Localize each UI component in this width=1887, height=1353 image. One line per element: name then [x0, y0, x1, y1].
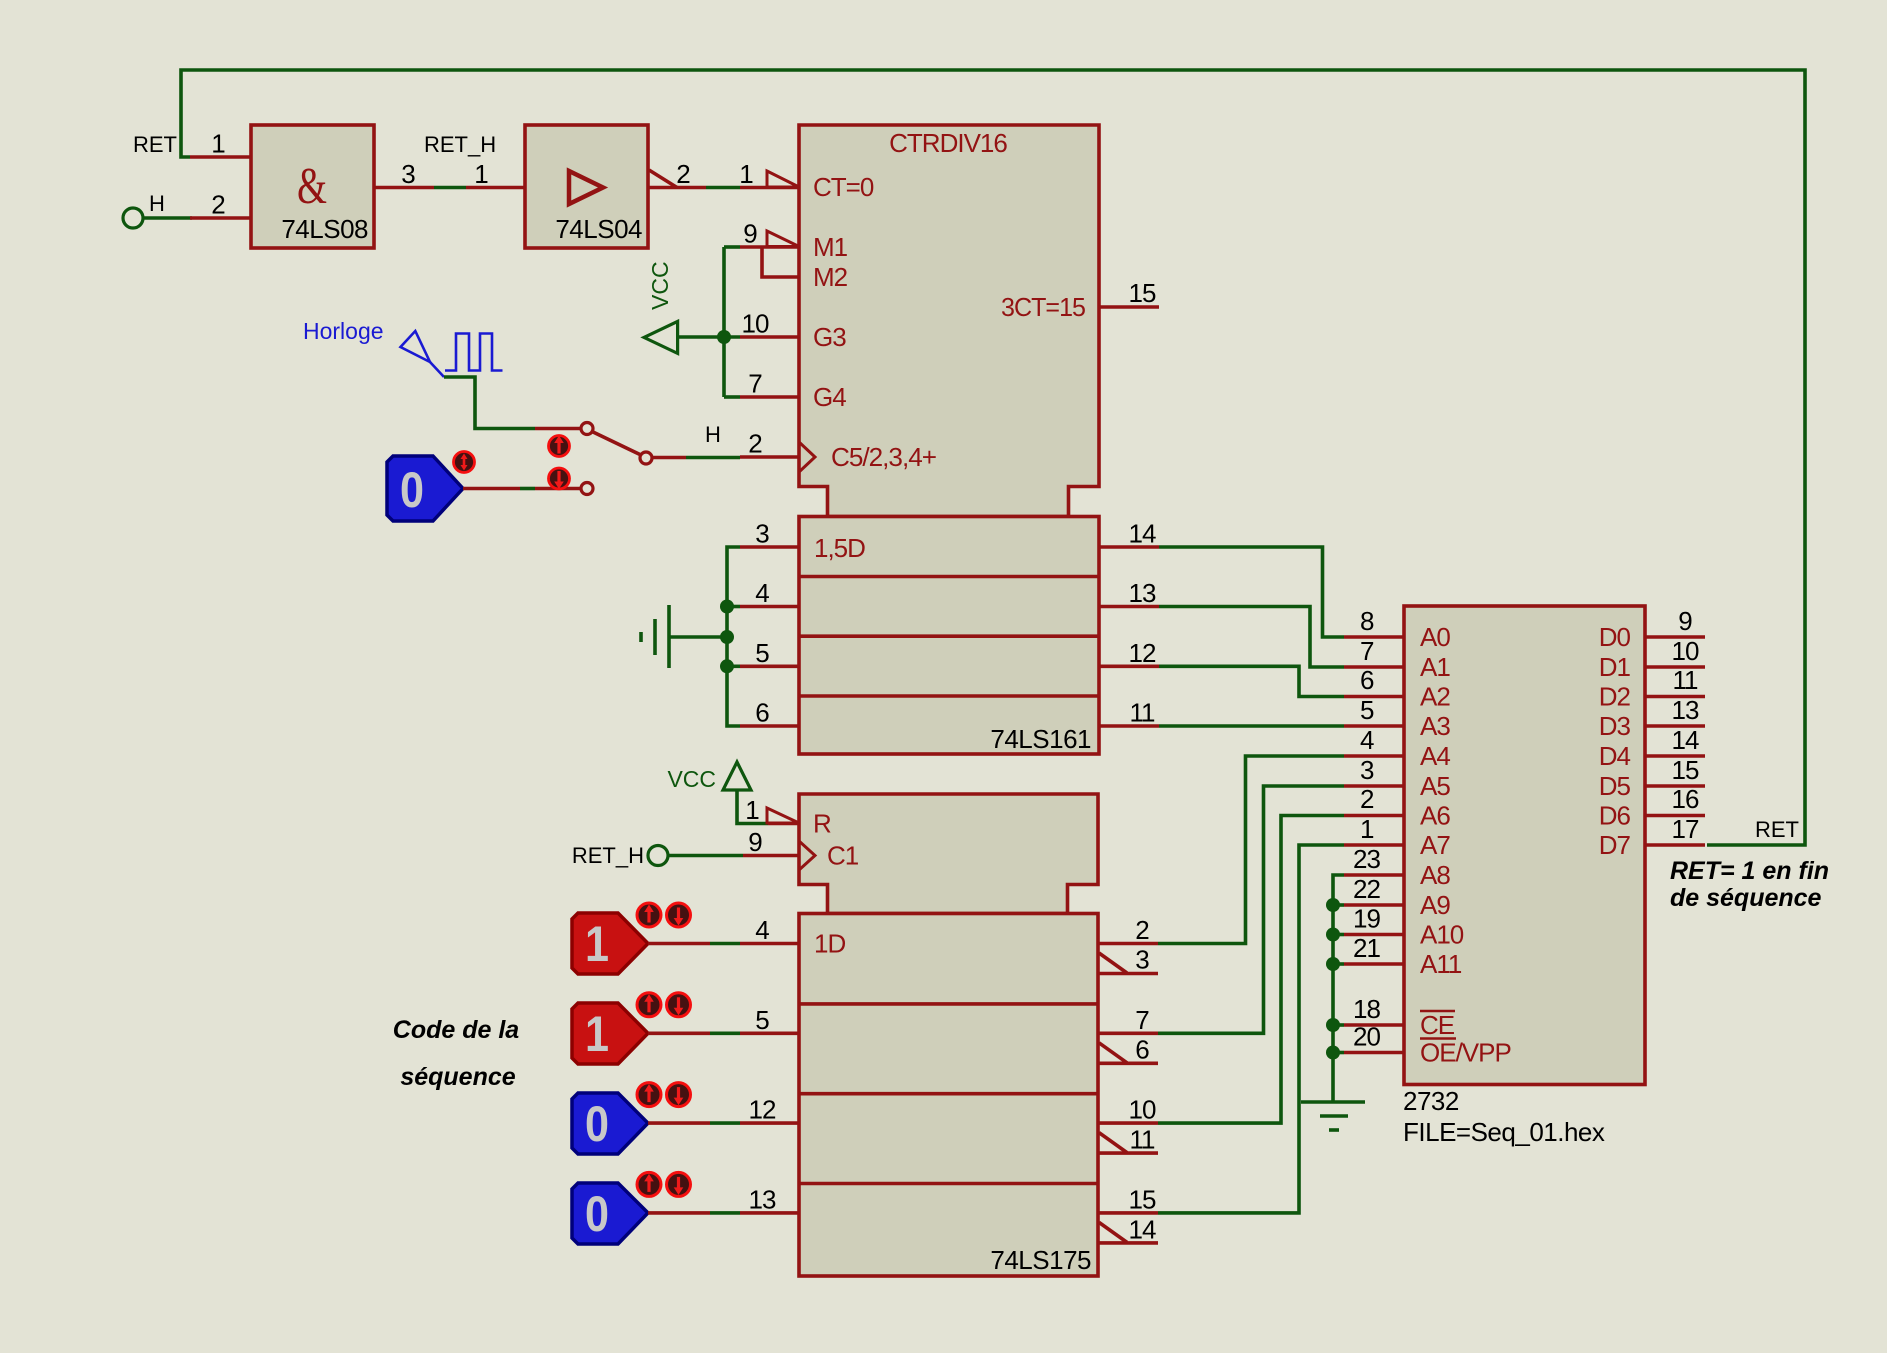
svg-text:7: 7	[1135, 1005, 1149, 1035]
svg-text:A9: A9	[1420, 890, 1450, 920]
svg-text:13: 13	[749, 1184, 776, 1214]
svg-text:2: 2	[1135, 915, 1149, 945]
label RET_H at terminal	[572, 843, 644, 868]
pin 20 OE/VPP of U4	[1344, 1022, 1511, 1068]
svg-text:CTRDIV16: CTRDIV16	[889, 128, 1007, 158]
svg-text:Code de la: Code de la	[393, 1016, 520, 1044]
svg-text:D6: D6	[1599, 801, 1631, 831]
node H terminal	[123, 208, 143, 228]
svg-text:A6: A6	[1420, 801, 1450, 831]
svg-text:A2: A2	[1420, 682, 1450, 712]
svg-text:D2: D2	[1599, 682, 1631, 712]
svg-text:5: 5	[755, 638, 769, 668]
wire logic0 to switch lower throw	[463, 487, 581, 491]
wire U3 pin11 to EPROM A3	[1159, 724, 1344, 728]
svg-text:15: 15	[1672, 755, 1699, 785]
svg-text:D0: D0	[1599, 622, 1631, 652]
pin 2 A6 of U4	[1344, 784, 1450, 831]
wire U2 pin2 to U3 CT=0	[706, 186, 740, 190]
wire U3 pin14 to EPROM A0	[1159, 547, 1344, 637]
svg-text:0: 0	[400, 462, 424, 518]
counter U3 74LS161 control block CTRDIV16	[799, 125, 1099, 517]
svg-text:séquence: séquence	[400, 1063, 515, 1091]
wire U5 pin15 to EPROM A7	[1158, 845, 1344, 1213]
svg-text:1: 1	[739, 159, 753, 189]
pin 2 C5/2,3,4+ clock of U3	[740, 429, 936, 473]
node RET_H terminal	[648, 846, 668, 866]
junction A10	[1326, 928, 1340, 942]
pin 2 Q0 of U5	[1098, 915, 1158, 945]
svg-text:CT=0: CT=0	[813, 172, 874, 202]
wire RET feedback net (top loop to EPROM D7)	[181, 70, 1805, 845]
svg-text:12: 12	[1129, 638, 1156, 668]
label RET_H net	[424, 132, 496, 157]
svg-text:C1: C1	[827, 841, 859, 871]
svg-text:3: 3	[401, 159, 415, 189]
svg-text:VCC: VCC	[647, 261, 673, 310]
VCC power symbol (up arrow)	[667, 762, 751, 792]
svg-text:R: R	[813, 809, 831, 839]
svg-text:VCC: VCC	[667, 766, 716, 792]
svg-text:14: 14	[1129, 519, 1156, 549]
junction pin4	[720, 600, 734, 614]
svg-text:21: 21	[1353, 933, 1380, 963]
annotation séquence	[400, 1063, 515, 1091]
svg-text:13: 13	[1129, 578, 1156, 608]
svg-text:10: 10	[1672, 636, 1699, 666]
ground symbol (down pointing)	[1301, 1102, 1365, 1130]
pin 6 A2 of U4	[1344, 665, 1450, 712]
VCC power symbol (left arrow)	[644, 261, 678, 353]
svg-text:8: 8	[1360, 606, 1374, 636]
pin 1 A7 of U4	[1344, 814, 1450, 860]
toggle down button D1	[667, 993, 691, 1017]
junction CE	[1326, 1018, 1340, 1032]
pin 6 of U3	[740, 698, 799, 728]
svg-text:0: 0	[585, 1186, 609, 1242]
svg-text:16: 16	[1672, 784, 1699, 814]
inverter U2 74LS04	[525, 125, 648, 248]
svg-text:5: 5	[1360, 695, 1374, 725]
pin 17 D7 of U4	[1599, 814, 1705, 860]
svg-text:74LS04: 74LS04	[555, 214, 642, 244]
wire clock to switch upper throw	[444, 377, 581, 429]
svg-text:D5: D5	[1599, 771, 1631, 801]
svg-text:18: 18	[1353, 994, 1380, 1024]
svg-text:1: 1	[745, 795, 759, 825]
pin 14 of U3	[1099, 519, 1159, 549]
svg-text:A3: A3	[1420, 711, 1450, 741]
junction A9	[1326, 898, 1340, 912]
svg-text:OE/VPP: OE/VPP	[1420, 1038, 1511, 1068]
counter U3 74LS161 register block	[799, 517, 1099, 755]
pin 11 of U3	[1099, 698, 1159, 728]
svg-text:11: 11	[1673, 665, 1699, 695]
svg-text:0: 0	[585, 1096, 609, 1152]
wire ground bus to U3 pins 3,4,5,6	[669, 547, 740, 726]
svg-text:A10: A10	[1420, 920, 1464, 950]
svg-text:74LS161: 74LS161	[990, 724, 1091, 754]
pin 9 M1 of U3	[740, 219, 848, 263]
svg-text:6: 6	[755, 698, 769, 728]
annotation Code de la	[393, 1016, 520, 1044]
wire switch pole to U3 C5 (net H)	[652, 456, 740, 460]
svg-text:RET_H: RET_H	[424, 132, 496, 157]
pin 13 D3 of U4	[1599, 695, 1705, 741]
annotation de séquence	[1670, 884, 1822, 912]
wire U5 pin7 to EPROM A5	[1158, 786, 1344, 1033]
toggle up button D0	[637, 903, 661, 927]
pin 1 R of U5	[745, 795, 831, 839]
svg-text:&: &	[297, 158, 327, 215]
wire VCC to U5 R pin	[737, 790, 768, 824]
svg-text:A8: A8	[1420, 860, 1450, 890]
wire U1 pin3 to U2 pin1 (RET_H)	[434, 186, 466, 190]
svg-text:5: 5	[755, 1005, 769, 1035]
svg-text:20: 20	[1353, 1022, 1380, 1052]
svg-text:D4: D4	[1599, 741, 1631, 771]
pin 13 of U5	[740, 1184, 799, 1214]
svg-text:7: 7	[1360, 636, 1374, 666]
svg-text:3CT=15: 3CT=15	[1001, 292, 1086, 322]
svg-text:A11: A11	[1420, 949, 1462, 979]
pin 5 A3 of U4	[1344, 695, 1450, 741]
toggle button up (switch)	[549, 436, 570, 457]
svg-text:H: H	[705, 422, 721, 447]
pin 14 Q3bar of U5	[1098, 1215, 1158, 1245]
pin 4 of U3	[740, 578, 799, 608]
pin 14 D4 of U4	[1599, 725, 1705, 771]
svg-text:RET_H: RET_H	[572, 843, 644, 868]
ground symbol (left pointing)	[641, 605, 669, 668]
junction ground row	[720, 630, 734, 644]
wire U5 pin10 to EPROM A6	[1158, 816, 1344, 1124]
pin 18 CE of U4	[1344, 994, 1455, 1040]
pin 21 A11 of U4	[1344, 933, 1462, 979]
svg-text:74LS08: 74LS08	[281, 214, 368, 244]
svg-text:de séquence: de séquence	[1670, 884, 1822, 912]
svg-text:9: 9	[748, 827, 762, 857]
svg-text:2: 2	[211, 190, 225, 220]
svg-text:7: 7	[748, 369, 762, 399]
svg-text:12: 12	[749, 1095, 776, 1125]
pin M2 bracket of U3	[762, 248, 848, 292]
pin 12 of U5	[740, 1095, 799, 1125]
register U5 74LS175 data block	[799, 914, 1098, 1277]
toggle button up-down (logic0)	[454, 452, 475, 473]
svg-text:CE: CE	[1420, 1010, 1455, 1040]
pin 5 of U5	[740, 1005, 799, 1035]
svg-text:H: H	[149, 191, 165, 216]
svg-text:2: 2	[748, 429, 762, 459]
wire logic1 to U5 pin5	[648, 1032, 740, 1036]
svg-text:FILE=Seq_01.hex: FILE=Seq_01.hex	[1403, 1117, 1605, 1147]
wire H terminal to U1 pin2	[143, 216, 192, 220]
pin 1 of U1	[190, 129, 251, 159]
pin 23 A8 of U4	[1344, 844, 1450, 890]
svg-text:19: 19	[1353, 904, 1380, 934]
svg-text:4: 4	[1360, 725, 1374, 755]
annotation RET= 1 en fin	[1670, 857, 1829, 885]
svg-text:A1: A1	[1420, 652, 1450, 682]
pin 4 of U5	[740, 915, 799, 945]
svg-text:M1: M1	[813, 232, 848, 262]
pin 7 A1 of U4	[1344, 636, 1450, 682]
wire logic0 to U5 pin12	[648, 1121, 740, 1125]
wire U3 pin12 to EPROM A2	[1159, 666, 1344, 696]
svg-text:3: 3	[755, 519, 769, 549]
pin 3 of U1 output	[374, 159, 434, 189]
label RET net right	[1755, 817, 1799, 842]
svg-text:1: 1	[474, 159, 488, 189]
wire logic1 to U5 pin4	[648, 942, 740, 946]
svg-text:3: 3	[1135, 945, 1149, 975]
pin 6 Q1bar of U5	[1098, 1035, 1158, 1065]
toggle up button D1	[637, 993, 661, 1017]
pin 22 A9 of U4	[1344, 874, 1450, 920]
svg-text:A5: A5	[1420, 771, 1450, 801]
svg-text:D1: D1	[1599, 652, 1631, 682]
toggle down button D2	[667, 1083, 691, 1107]
junction OE	[1326, 1046, 1340, 1060]
label H net at switch wire	[705, 422, 721, 447]
svg-text:2: 2	[676, 159, 690, 189]
register U5 74LS175 control block	[799, 794, 1098, 914]
svg-text:G4: G4	[813, 382, 846, 412]
pin 10 G3 of U3	[740, 309, 846, 353]
svg-text:Horloge: Horloge	[303, 318, 384, 344]
AND gate U1 74LS08	[251, 125, 374, 248]
pin 4 A4 of U4	[1344, 725, 1450, 771]
logic state 1 input D0	[572, 913, 648, 974]
pin 15 D5 of U4	[1599, 755, 1705, 801]
svg-text:11: 11	[1130, 1125, 1156, 1155]
pin 9 D0 of U4	[1599, 606, 1705, 652]
pin 2 of U2 output with inversion slash	[648, 159, 706, 189]
svg-text:A0: A0	[1420, 622, 1450, 652]
pin 15 Q3 of U5	[1098, 1184, 1158, 1214]
logic state 0 input D2	[572, 1093, 648, 1154]
logic state 1 input D1	[572, 1003, 648, 1064]
toggle button down (switch)	[549, 468, 570, 489]
svg-text:11: 11	[1130, 698, 1156, 728]
pin 3 of U3	[740, 519, 799, 549]
svg-text:RET: RET	[1755, 817, 1799, 842]
pin 7 G4 of U3	[740, 369, 846, 413]
svg-text:15: 15	[1129, 278, 1156, 308]
svg-text:6: 6	[1135, 1035, 1149, 1065]
svg-text:6: 6	[1360, 665, 1374, 695]
svg-text:4: 4	[755, 915, 769, 945]
pin 10 Q2 of U5	[1098, 1095, 1158, 1125]
svg-text:23: 23	[1353, 844, 1380, 874]
svg-text:3: 3	[1360, 755, 1374, 785]
svg-text:2732: 2732	[1403, 1086, 1459, 1116]
svg-text:1: 1	[1360, 814, 1374, 844]
svg-text:22: 22	[1353, 874, 1380, 904]
pin 9 C1 clock of U5	[743, 827, 859, 871]
svg-text:13: 13	[1672, 695, 1699, 725]
clock generator Horloge	[303, 318, 503, 377]
logic state 0 input D3	[572, 1183, 648, 1244]
pin 16 D6 of U4	[1599, 784, 1705, 831]
toggle down button D3	[667, 1172, 691, 1196]
toggle up button D3	[637, 1172, 661, 1196]
pin 3 A5 of U4	[1344, 755, 1450, 801]
junction A11	[1326, 957, 1340, 971]
pin 13 of U3	[1099, 578, 1159, 608]
pin 11 D2 of U4	[1599, 665, 1705, 712]
svg-text:10: 10	[742, 309, 769, 339]
pin 2 of U1	[190, 190, 251, 220]
pin 8 A0 of U4	[1344, 606, 1450, 652]
pin 11 Q2bar of U5	[1098, 1125, 1158, 1155]
svg-text:D3: D3	[1599, 711, 1631, 741]
svg-text:M2: M2	[813, 262, 848, 292]
svg-text:14: 14	[1672, 725, 1699, 755]
svg-text:1: 1	[211, 129, 225, 159]
svg-text:1D: 1D	[814, 929, 845, 959]
wire RET_H to U5 C1	[668, 854, 743, 858]
label RET net	[133, 132, 177, 157]
svg-text:G3: G3	[813, 322, 846, 352]
toggle down button D0	[667, 903, 691, 927]
svg-text:1: 1	[585, 916, 609, 972]
junction pin5	[720, 659, 734, 673]
pin 1 CT=0 of U3	[739, 159, 874, 202]
wire logic0 to U5 pin13	[648, 1211, 740, 1215]
pin 1 of U2	[466, 159, 525, 189]
wire ground rail to A8-A11,CE,OE	[1333, 875, 1344, 1101]
wire VCC to M1/G3/G4	[678, 247, 740, 397]
logic state 0 input (clock select)	[387, 456, 463, 521]
pin 3 Q0bar of U5	[1098, 945, 1158, 975]
svg-text:9: 9	[1678, 606, 1692, 636]
pin 10 D1 of U4	[1599, 636, 1705, 682]
svg-text:14: 14	[1129, 1215, 1156, 1245]
svg-text:74LS175: 74LS175	[990, 1245, 1091, 1275]
svg-text:1: 1	[585, 1006, 609, 1062]
wire U3 pin13 to EPROM A1	[1159, 607, 1344, 668]
svg-text:RET: RET	[133, 132, 177, 157]
svg-text:A4: A4	[1420, 741, 1450, 771]
svg-text:17: 17	[1672, 814, 1699, 844]
svg-text:C5/2,3,4+: C5/2,3,4+	[831, 442, 936, 472]
svg-text:A7: A7	[1420, 830, 1450, 860]
svg-text:15: 15	[1129, 1184, 1156, 1214]
svg-text:9: 9	[743, 219, 757, 249]
svg-text:1,5D: 1,5D	[814, 533, 865, 563]
pin 5 of U3	[740, 638, 799, 668]
pin 12 of U3	[1099, 638, 1159, 668]
pin 15 3CT=15 of U3	[1001, 278, 1159, 322]
svg-text:2: 2	[1360, 784, 1374, 814]
EPROM U4 2732	[1403, 606, 1645, 1147]
label H net	[149, 191, 165, 216]
junction VCC/G3	[717, 330, 731, 344]
pin 7 Q1 of U5	[1098, 1005, 1158, 1035]
svg-text:D7: D7	[1599, 830, 1631, 860]
svg-text:RET= 1 en fin: RET= 1 en fin	[1670, 857, 1829, 885]
wire U5 pin2 to EPROM A4	[1158, 756, 1344, 944]
switch SW1 SPDT	[581, 423, 652, 495]
pin 19 A10 of U4	[1344, 904, 1464, 950]
svg-text:4: 4	[755, 578, 769, 608]
toggle up button D2	[637, 1083, 661, 1107]
svg-text:10: 10	[1129, 1095, 1156, 1125]
